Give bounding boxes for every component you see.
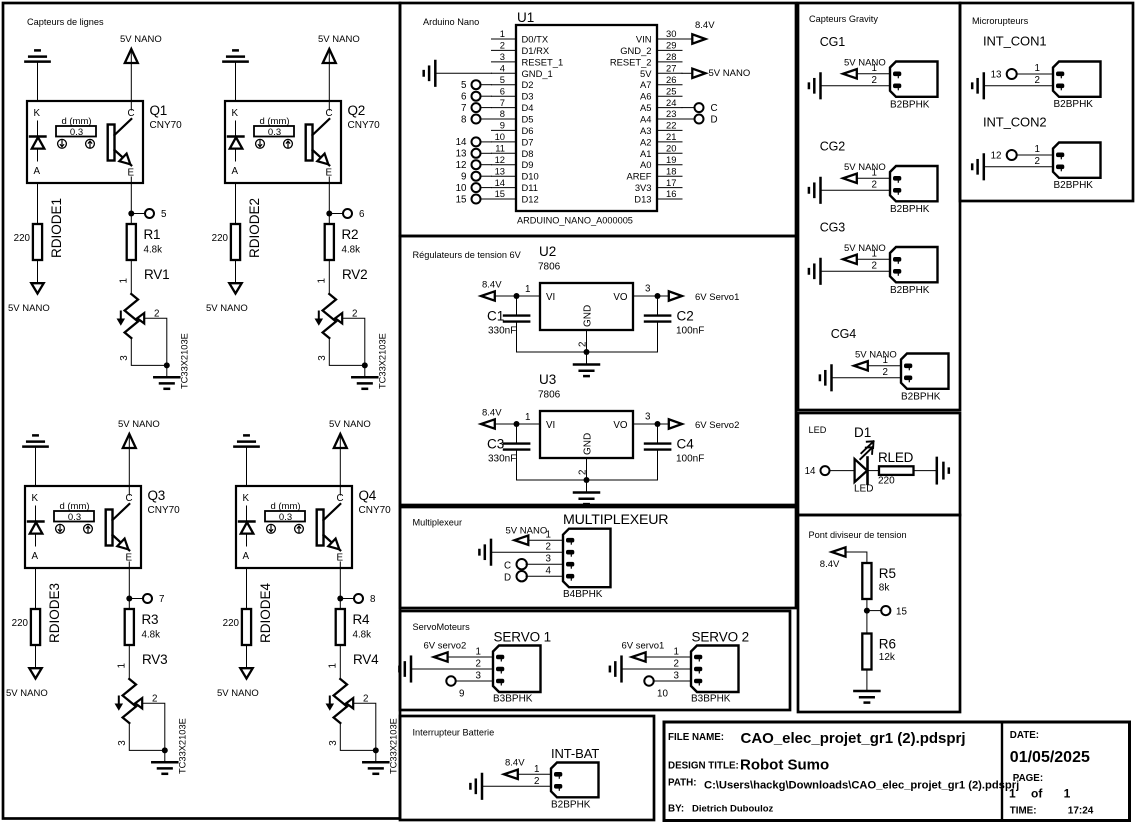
svg-text:26: 26 <box>666 74 676 85</box>
svg-text:2: 2 <box>500 40 505 51</box>
svg-text:8.4V: 8.4V <box>482 408 502 419</box>
resistor RLED 220 <box>878 450 914 487</box>
wire <box>353 703 376 750</box>
connector INT_CON1 B2BPHK <box>983 34 1101 111</box>
svg-text:17:24: 17:24 <box>1068 806 1094 817</box>
svg-text:17: 17 <box>666 177 676 188</box>
terminal 8 <box>461 114 480 125</box>
svg-text:12: 12 <box>495 154 505 165</box>
svg-text:23: 23 <box>666 108 676 119</box>
svg-text:13: 13 <box>495 165 505 176</box>
wire <box>821 189 891 191</box>
svg-text:3: 3 <box>117 740 128 746</box>
connector SERVO 2 B3BPHK <box>674 630 750 705</box>
connector INT-BAT B2BPHK <box>534 746 599 811</box>
svg-text:3: 3 <box>546 554 552 565</box>
svg-text:8.4V: 8.4V <box>695 20 715 31</box>
svg-text:PAGE:: PAGE: <box>1013 773 1043 784</box>
svg-text:5V NANO: 5V NANO <box>217 688 259 699</box>
svg-text:15: 15 <box>495 188 505 199</box>
svg-text:D: D <box>504 573 511 584</box>
svg-text:PATH:: PATH: <box>668 778 696 789</box>
svg-text:1: 1 <box>1064 787 1071 801</box>
junction <box>337 596 343 602</box>
section frame Pont diviseur de tension <box>798 515 960 712</box>
resistor R1 4.8k <box>127 224 162 260</box>
wire <box>868 470 880 472</box>
wire <box>1017 154 1053 156</box>
svg-text:29: 29 <box>666 40 676 51</box>
ground <box>937 458 949 483</box>
svg-text:1: 1 <box>118 278 129 283</box>
svg-text:330nF: 330nF <box>488 326 516 337</box>
svg-text:2: 2 <box>872 261 877 272</box>
svg-text:MULTIPLEXEUR: MULTIPLEXEUR <box>563 512 668 528</box>
svg-text:5: 5 <box>461 80 467 91</box>
terminal 5 <box>461 80 480 91</box>
junction <box>655 421 661 427</box>
terminal 12 <box>456 160 481 171</box>
svg-text:GND_2: GND_2 <box>620 45 651 56</box>
terminal D (A4) <box>682 114 718 125</box>
svg-text:B2BPHK: B2BPHK <box>901 392 941 403</box>
wire <box>328 183 330 224</box>
wire <box>517 458 658 480</box>
svg-text:CG1: CG1 <box>820 35 846 49</box>
wire <box>481 152 492 154</box>
svg-text:100nF: 100nF <box>676 326 704 337</box>
power flag 6V Servo2 <box>669 419 740 431</box>
svg-text:3: 3 <box>119 355 130 361</box>
terminal 6 <box>461 92 480 103</box>
svg-text:6V Servo1: 6V Servo1 <box>695 292 739 303</box>
svg-text:K: K <box>34 108 41 119</box>
svg-text:4.8k: 4.8k <box>342 245 361 256</box>
junction <box>584 477 590 483</box>
wire <box>481 95 492 97</box>
svg-text:22: 22 <box>666 120 676 131</box>
svg-text:7: 7 <box>461 103 466 114</box>
terminal C (mux) <box>504 559 527 572</box>
wire <box>845 552 867 563</box>
power flag 5V NANO (CG2) <box>843 162 886 183</box>
terminal 14 <box>456 137 481 148</box>
svg-text:9: 9 <box>500 120 505 131</box>
wire <box>481 198 492 200</box>
svg-text:5V NANO: 5V NANO <box>318 34 360 45</box>
junction <box>514 293 520 299</box>
svg-text:D4: D4 <box>522 102 534 113</box>
svg-text:Q2: Q2 <box>348 103 366 118</box>
power flag 8.4V (input U3) <box>481 408 502 429</box>
svg-text:Régulateurs de tension 6V: Régulateurs de tension 6V <box>413 250 522 260</box>
svg-text:D5: D5 <box>522 114 534 125</box>
svg-text:16: 16 <box>666 188 676 199</box>
wire <box>35 568 37 609</box>
junction <box>126 596 132 602</box>
wire <box>339 568 341 609</box>
connector CG2 B2BPHK <box>820 140 938 216</box>
svg-text:INT-BAT: INT-BAT <box>551 746 599 761</box>
svg-text:13: 13 <box>991 70 1002 81</box>
title block FILE NAME <box>668 730 966 747</box>
wire <box>832 377 902 379</box>
wire <box>984 166 1053 168</box>
svg-text:8: 8 <box>500 108 505 119</box>
wire <box>246 645 248 669</box>
wire <box>37 63 39 101</box>
ground <box>574 493 599 505</box>
svg-text:CG3: CG3 <box>820 221 846 235</box>
section frame Microrupteurs <box>960 3 1133 201</box>
svg-text:RV3: RV3 <box>142 652 167 667</box>
terminal 15 <box>870 606 908 617</box>
svg-text:3: 3 <box>674 671 680 682</box>
connector MULTIPLEXEUR B4BPHK <box>546 512 669 600</box>
svg-text:5V NANO: 5V NANO <box>506 525 548 536</box>
svg-text:LED: LED <box>854 484 873 495</box>
svg-text:A3: A3 <box>640 125 651 136</box>
svg-text:9: 9 <box>461 172 466 183</box>
junction <box>164 362 170 368</box>
svg-text:D13: D13 <box>634 194 651 205</box>
wire <box>142 703 165 750</box>
svg-text:2: 2 <box>1035 75 1040 86</box>
svg-text:220: 220 <box>223 618 240 629</box>
section frame LED <box>798 413 960 515</box>
svg-text:D2: D2 <box>522 79 534 90</box>
terminal 13 <box>456 149 481 160</box>
svg-text:3: 3 <box>500 51 505 62</box>
svg-text:A0: A0 <box>640 159 651 170</box>
svg-text:7: 7 <box>500 97 505 108</box>
title block DATE <box>1010 730 1090 766</box>
svg-text:27: 27 <box>666 63 676 74</box>
ground <box>610 657 622 682</box>
svg-text:8: 8 <box>461 114 467 125</box>
ground <box>424 61 436 86</box>
potentiometer RV1 TC33X2103E <box>117 267 189 389</box>
power flag 6V servo2 <box>424 641 467 662</box>
svg-text:Arduino Nano: Arduino Nano <box>423 17 479 27</box>
svg-text:Robot Sumo: Robot Sumo <box>740 757 829 774</box>
svg-text:B2BPHK: B2BPHK <box>551 800 591 811</box>
svg-text:4.8k: 4.8k <box>142 630 161 641</box>
wire <box>235 63 237 101</box>
svg-text:D: D <box>711 114 718 125</box>
wire <box>411 668 493 670</box>
svg-text:5V: 5V <box>640 68 652 79</box>
svg-text:Q4: Q4 <box>359 488 377 503</box>
svg-text:2: 2 <box>872 75 877 86</box>
svg-text:1: 1 <box>525 412 530 423</box>
wire <box>586 480 588 492</box>
svg-text:220: 220 <box>14 233 31 244</box>
wire <box>491 551 563 553</box>
svg-text:TC33X2103E: TC33X2103E <box>178 718 188 774</box>
wire <box>633 295 669 297</box>
svg-text:D1/RX: D1/RX <box>522 45 550 56</box>
svg-text:0.3: 0.3 <box>68 512 81 523</box>
svg-text:CG4: CG4 <box>831 327 857 341</box>
svg-text:5V NANO: 5V NANO <box>844 58 886 69</box>
svg-text:1: 1 <box>534 764 539 775</box>
wire <box>866 670 868 691</box>
wire <box>37 260 39 284</box>
optocoupler Q1 CNY70 <box>27 101 182 183</box>
wire <box>984 85 1053 87</box>
svg-text:5V NANO: 5V NANO <box>118 419 160 430</box>
power flag 5V NANO (down) <box>206 283 248 314</box>
title block TIME <box>1010 806 1094 817</box>
terminal 13 <box>991 69 1017 81</box>
svg-text:12k: 12k <box>879 652 896 663</box>
svg-text:20: 20 <box>666 143 676 154</box>
svg-text:D12: D12 <box>522 194 539 205</box>
ground (inverted earth) <box>234 435 258 446</box>
svg-text:4: 4 <box>500 63 505 74</box>
resistor RDIODE4 220 <box>223 582 273 645</box>
wire <box>866 599 868 634</box>
junction <box>326 211 332 217</box>
wire <box>481 118 492 120</box>
wire <box>495 295 541 297</box>
svg-text:RLED: RLED <box>878 450 914 465</box>
svg-text:01/05/2025: 01/05/2025 <box>1010 749 1090 766</box>
title block PATH <box>668 778 1019 792</box>
svg-text:RV4: RV4 <box>353 652 379 667</box>
svg-text:RDIODE2: RDIODE2 <box>247 198 262 258</box>
capacitor C4 100nF <box>645 424 704 480</box>
svg-text:1: 1 <box>674 647 679 658</box>
wire <box>830 470 856 472</box>
svg-text:6V servo2: 6V servo2 <box>424 641 467 652</box>
resistor RDIODE1 220 <box>14 198 64 260</box>
svg-text:2: 2 <box>872 180 877 191</box>
ground <box>154 377 179 389</box>
wire <box>328 260 330 294</box>
resistor R5 8k <box>862 563 896 599</box>
svg-text:D0/TX: D0/TX <box>522 34 549 45</box>
terminal 10 <box>456 183 481 194</box>
svg-text:11: 11 <box>495 143 505 154</box>
svg-text:BY:: BY: <box>668 804 684 815</box>
terminal 9 <box>446 676 464 699</box>
svg-text:CG2: CG2 <box>820 140 846 154</box>
svg-text:D6: D6 <box>522 125 534 136</box>
junction <box>655 293 661 299</box>
wire <box>633 423 669 425</box>
svg-text:A: A <box>34 166 41 177</box>
svg-text:A4: A4 <box>640 114 651 125</box>
svg-text:C2: C2 <box>677 309 694 324</box>
svg-text:1: 1 <box>500 28 505 39</box>
wire <box>481 84 492 86</box>
power flag 5V NANO (5V pin) <box>682 68 750 79</box>
wire <box>235 260 237 284</box>
terminal 8 <box>343 594 376 605</box>
svg-text:12: 12 <box>456 160 467 171</box>
terminal 6 <box>332 209 365 220</box>
wire <box>821 270 891 272</box>
svg-text:1: 1 <box>1009 787 1016 801</box>
wire <box>128 568 130 609</box>
terminal C (A5) <box>682 103 718 114</box>
capacitor C2 100nF <box>645 296 704 352</box>
svg-text:3: 3 <box>645 284 651 295</box>
terminal 14 <box>805 466 830 477</box>
potentiometer RV2 TC33X2103E <box>315 267 387 389</box>
svg-text:RDIODE1: RDIODE1 <box>49 198 64 258</box>
potentiometer RV3 TC33X2103E <box>115 652 187 774</box>
power flag 5V NANO (top of Q4) <box>329 419 371 448</box>
wire <box>131 338 167 365</box>
svg-text:220: 220 <box>878 476 895 487</box>
svg-text:D8: D8 <box>522 148 534 159</box>
svg-text:0.3: 0.3 <box>279 512 292 523</box>
wire <box>246 568 248 609</box>
wire <box>130 260 132 294</box>
wire <box>342 318 365 365</box>
svg-text:10: 10 <box>657 689 668 700</box>
svg-text:B2BPHK: B2BPHK <box>890 285 930 296</box>
svg-text:Multiplexeur: Multiplexeur <box>413 518 463 528</box>
wire <box>130 50 132 101</box>
svg-text:D9: D9 <box>522 159 534 170</box>
svg-text:RDIODE4: RDIODE4 <box>258 582 273 643</box>
svg-text:A: A <box>243 551 250 562</box>
ground <box>972 74 984 99</box>
wire <box>166 365 168 376</box>
terminal 9 <box>461 172 480 183</box>
wire <box>164 750 166 761</box>
svg-text:4.8k: 4.8k <box>144 245 163 256</box>
svg-text:B3BPHK: B3BPHK <box>493 694 533 705</box>
svg-text:Capteurs Gravity: Capteurs Gravity <box>809 14 878 24</box>
wire <box>481 175 492 177</box>
ground <box>479 540 491 565</box>
power flag 5V NANO (top of Q2) <box>318 34 360 63</box>
svg-text:R6: R6 <box>879 636 896 651</box>
svg-text:1: 1 <box>476 647 481 658</box>
wire <box>339 645 341 679</box>
resistor RDIODE2 220 <box>212 198 262 260</box>
svg-text:VI: VI <box>546 292 555 303</box>
svg-text:VO: VO <box>613 420 628 431</box>
wire <box>375 750 377 761</box>
svg-text:FILE NAME:: FILE NAME: <box>668 732 724 743</box>
wire <box>526 575 563 577</box>
svg-text:7: 7 <box>159 594 164 605</box>
junction <box>864 608 870 614</box>
svg-text:RV1: RV1 <box>144 267 169 282</box>
connector CG3 B2BPHK <box>820 221 938 297</box>
svg-text:VI: VI <box>546 420 555 431</box>
svg-text:TC33X2103E: TC33X2103E <box>180 333 190 389</box>
svg-text:5V NANO: 5V NANO <box>206 303 248 314</box>
svg-text:13: 13 <box>456 149 467 160</box>
svg-text:15: 15 <box>456 194 467 205</box>
wire <box>235 183 237 224</box>
svg-text:14: 14 <box>805 466 816 477</box>
wire <box>481 141 492 143</box>
svg-text:B2BPHK: B2BPHK <box>1054 180 1094 191</box>
svg-text:1: 1 <box>316 278 327 283</box>
wire <box>35 448 37 486</box>
title block PAGE <box>1009 773 1071 801</box>
svg-text:2: 2 <box>674 659 679 670</box>
wire <box>364 365 366 376</box>
svg-text:24: 24 <box>666 97 676 108</box>
svg-text:A1: A1 <box>640 148 651 159</box>
title block DESIGN TITLE <box>668 757 829 774</box>
svg-text:CAO_elec_projet_gr1 (2).pdsprj: CAO_elec_projet_gr1 (2).pdsprj <box>741 730 966 747</box>
svg-text:1: 1 <box>1035 63 1040 74</box>
svg-text:RESET_2: RESET_2 <box>610 56 652 67</box>
svg-text:GND_1: GND_1 <box>522 68 553 79</box>
svg-text:Microrupteurs: Microrupteurs <box>972 16 1029 26</box>
wire <box>868 365 902 367</box>
svg-text:1: 1 <box>327 663 338 668</box>
wire <box>482 785 551 787</box>
svg-text:VIN: VIN <box>636 34 652 45</box>
svg-text:6: 6 <box>359 209 365 220</box>
wire <box>857 73 891 75</box>
power flag 8.4V (INT-BAT) <box>504 758 525 780</box>
wire <box>1017 73 1053 75</box>
power flag 5V NANO (down) <box>6 668 48 699</box>
wire <box>654 680 691 682</box>
svg-text:TC33X2103E: TC33X2103E <box>378 333 388 389</box>
section frame Capteurs Gravity <box>798 3 960 410</box>
wire <box>246 448 248 486</box>
wire <box>37 183 39 224</box>
svg-text:10: 10 <box>456 183 467 194</box>
voltage regulator U2 7806 <box>525 244 651 347</box>
svg-text:TIME:: TIME: <box>1010 806 1037 817</box>
svg-text:9: 9 <box>459 689 464 700</box>
optocoupler Q3 CNY70 <box>25 486 180 568</box>
ground <box>152 762 177 774</box>
svg-text:1: 1 <box>116 663 127 668</box>
svg-text:R4: R4 <box>353 612 371 627</box>
svg-text:INT_CON1: INT_CON1 <box>983 34 1047 49</box>
ground (inverted earth) <box>23 435 47 446</box>
connector CG4 B2BPHK <box>831 327 949 403</box>
ground <box>470 774 482 799</box>
svg-text:0.3: 0.3 <box>70 127 83 138</box>
svg-text:DATE:: DATE: <box>1010 730 1039 741</box>
svg-text:220: 220 <box>12 618 29 629</box>
wire <box>339 435 341 486</box>
wire <box>130 183 132 224</box>
svg-text:D1: D1 <box>854 425 871 440</box>
svg-text:A: A <box>32 551 39 562</box>
junction <box>514 421 520 427</box>
svg-text:CNY70: CNY70 <box>359 505 392 516</box>
svg-text:4: 4 <box>546 566 552 577</box>
svg-text:3V3: 3V3 <box>635 182 652 193</box>
wire <box>447 656 493 658</box>
junction <box>584 349 590 355</box>
svg-text:21: 21 <box>666 131 676 142</box>
wire <box>35 645 37 669</box>
terminal 10 <box>644 676 668 699</box>
svg-text:Interrupteur Batterie: Interrupteur Batterie <box>413 728 495 738</box>
svg-text:C:\Users\hackg\Downloads\CAO_e: C:\Users\hackg\Downloads\CAO_elec_projet… <box>704 780 1019 792</box>
svg-text:SERVO 1: SERVO 1 <box>494 630 552 645</box>
resistor R2 4.8k <box>325 224 360 260</box>
